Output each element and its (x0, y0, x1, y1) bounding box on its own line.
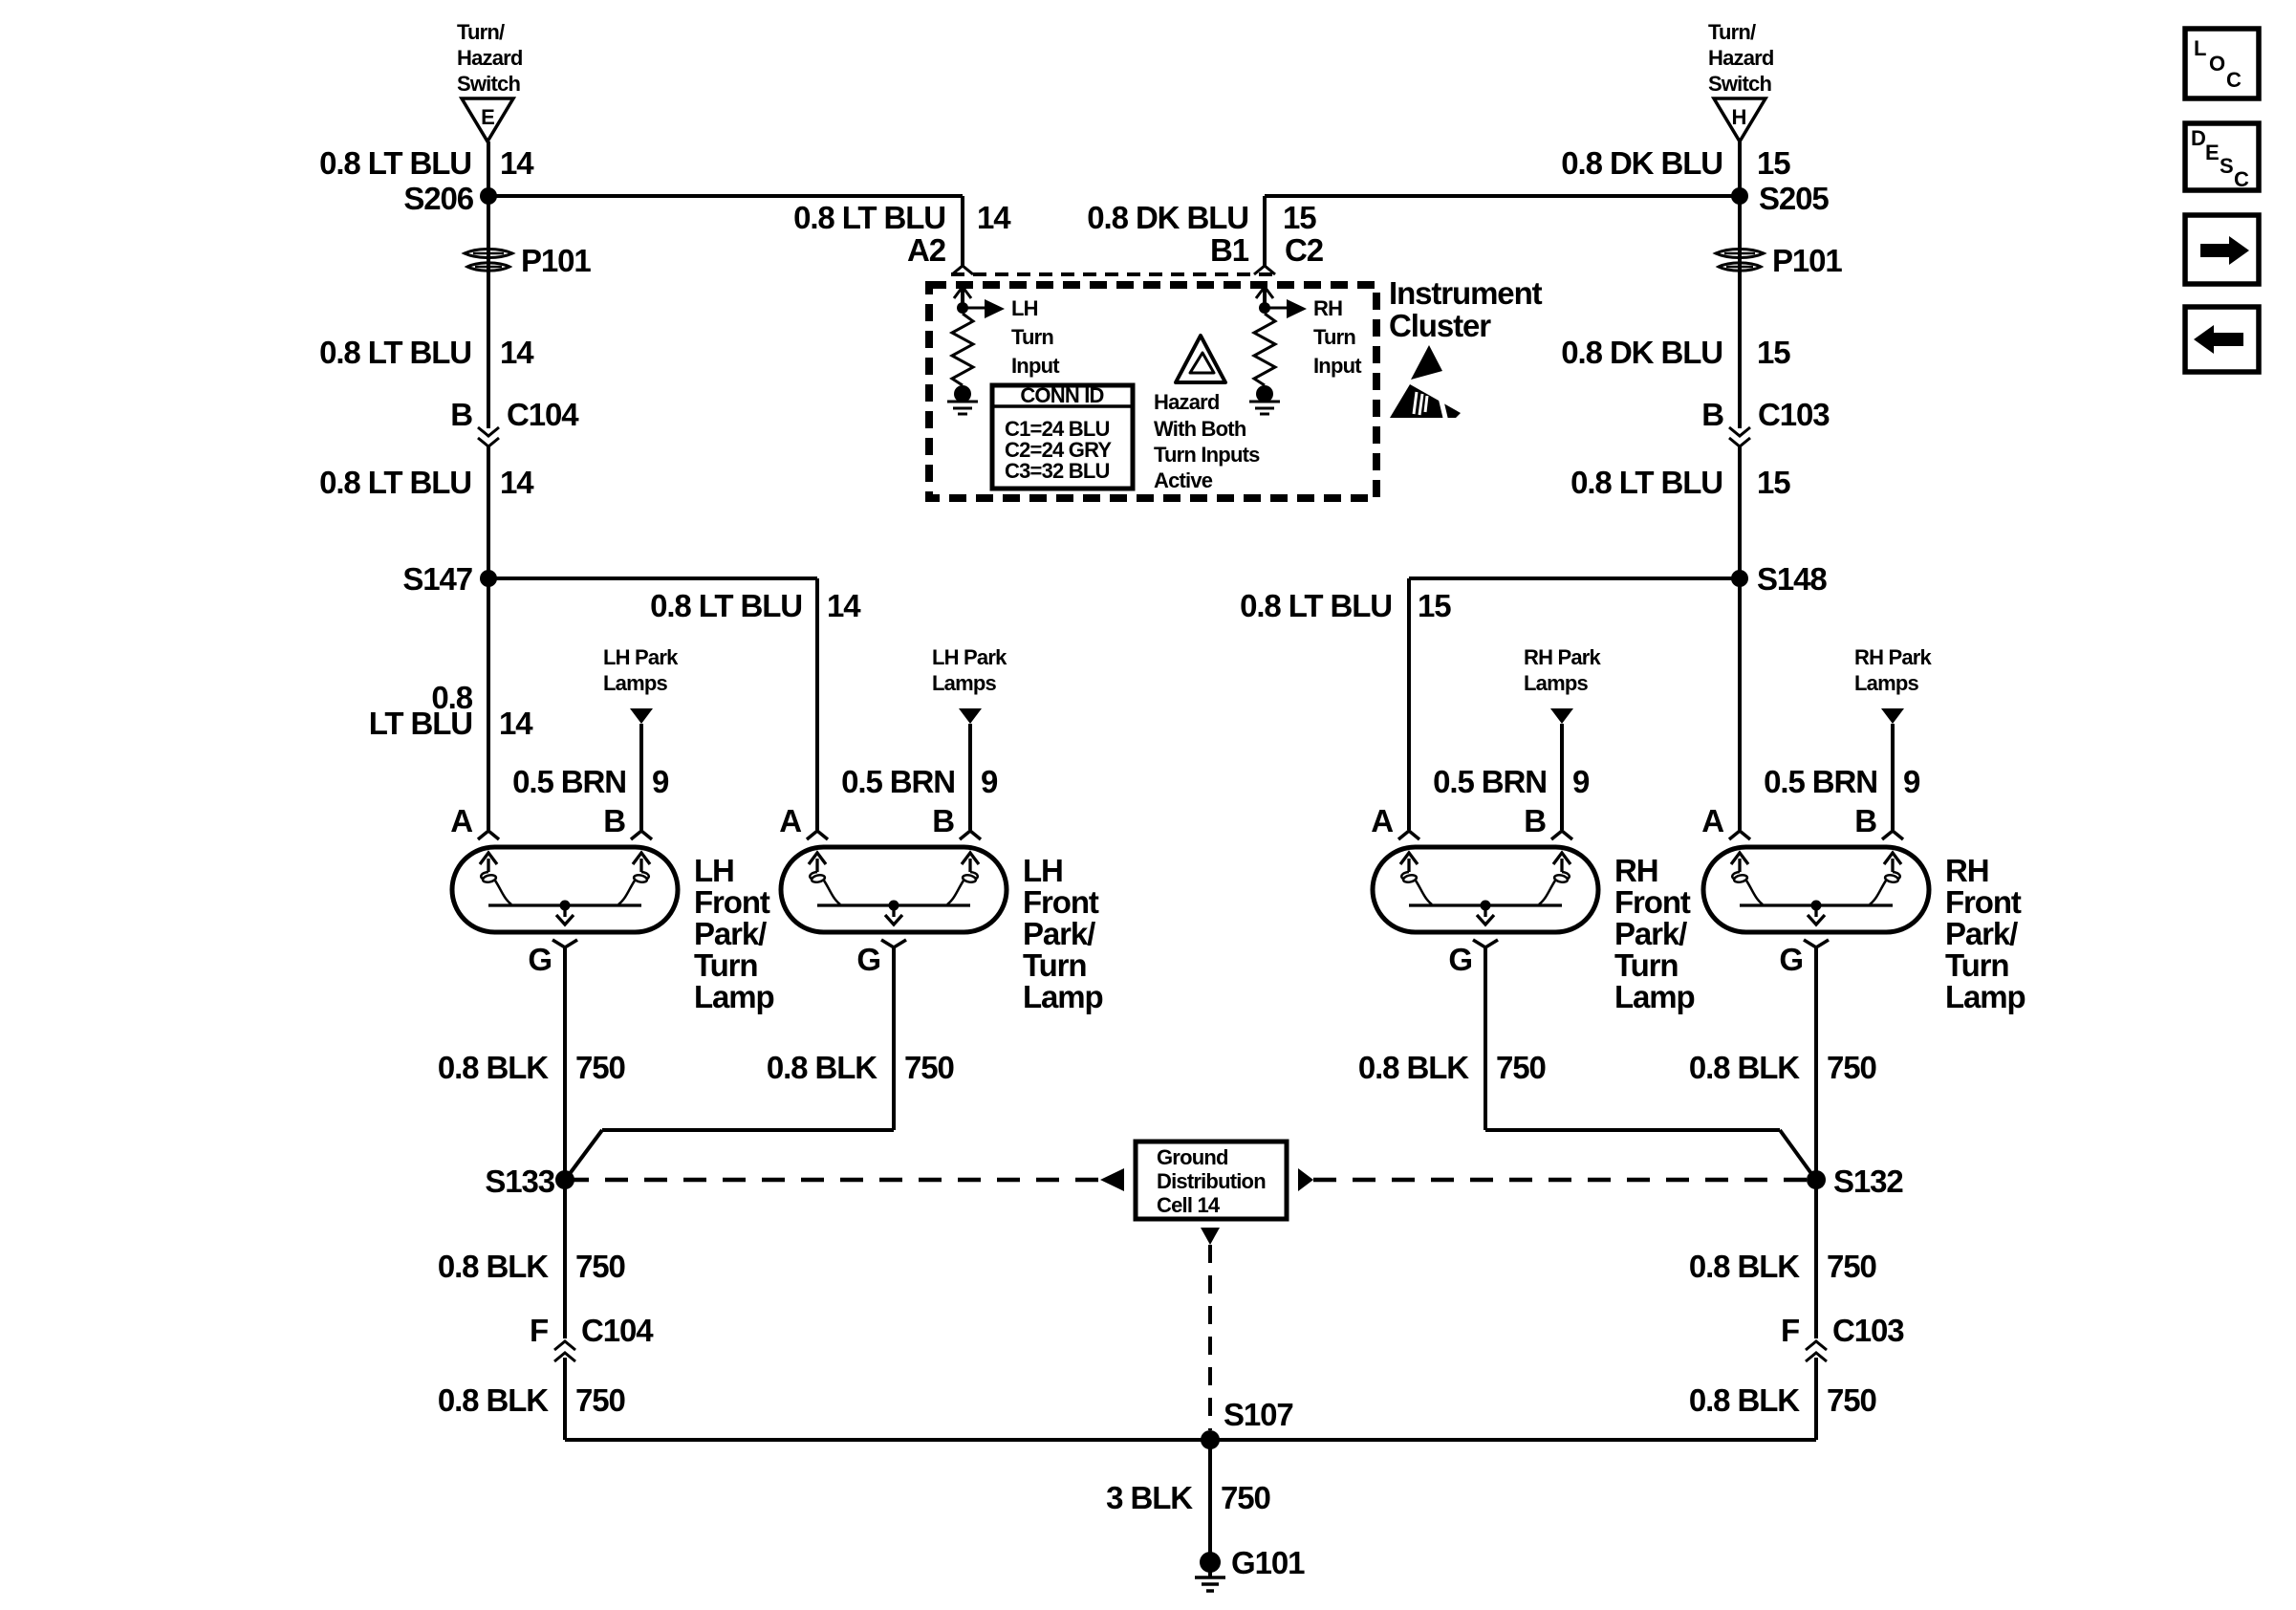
svg-text:0.8 LT BLU: 0.8 LT BLU (319, 145, 471, 181)
svg-text:Switch: Switch (457, 72, 520, 96)
svg-text:S107: S107 (1224, 1397, 1293, 1432)
svg-text:0.5 BRN: 0.5 BRN (841, 764, 955, 799)
svg-text:Park/: Park/ (694, 916, 767, 951)
svg-text:750: 750 (575, 1382, 625, 1418)
svg-text:750: 750 (1496, 1050, 1546, 1085)
svg-text:Hazard: Hazard (457, 46, 523, 70)
svg-text:15: 15 (1757, 465, 1790, 500)
svg-text:0.8 LT BLU: 0.8 LT BLU (793, 200, 945, 235)
svg-text:LH: LH (1023, 853, 1063, 888)
svg-text:0.8 BLK: 0.8 BLK (438, 1382, 549, 1418)
svg-text:750: 750 (1827, 1249, 1876, 1284)
svg-text:S133: S133 (485, 1164, 554, 1199)
svg-text:Distribution: Distribution (1157, 1169, 1266, 1193)
svg-text:Turn: Turn (1614, 947, 1678, 983)
svg-text:S206: S206 (403, 181, 473, 216)
svg-text:Turn: Turn (1945, 947, 2008, 983)
svg-text:Cluster: Cluster (1389, 308, 1491, 343)
svg-text:0.8 BLK: 0.8 BLK (1689, 1249, 1800, 1284)
svg-text:Park/: Park/ (1023, 916, 1095, 951)
svg-text:750: 750 (1827, 1050, 1876, 1085)
svg-text:D: D (2191, 126, 2205, 150)
svg-text:C2: C2 (1285, 232, 1324, 268)
svg-text:S: S (2220, 154, 2233, 178)
svg-text:Ground: Ground (1157, 1145, 1228, 1169)
svg-text:Cell 14: Cell 14 (1157, 1193, 1221, 1217)
svg-text:Turn: Turn (1023, 947, 1086, 983)
svg-text:G101: G101 (1231, 1545, 1305, 1580)
svg-text:14: 14 (500, 465, 534, 500)
svg-text:RH: RH (1313, 296, 1342, 320)
svg-text:Turn: Turn (1011, 325, 1053, 349)
svg-text:Front: Front (694, 884, 770, 920)
svg-text:0.8 LT BLU: 0.8 LT BLU (319, 465, 471, 500)
svg-text:Instrument: Instrument (1389, 275, 1543, 311)
svg-text:3 BLK: 3 BLK (1106, 1480, 1193, 1515)
svg-text:O: O (2209, 52, 2225, 76)
svg-text:LH: LH (1011, 296, 1038, 320)
svg-text:Lamps: Lamps (1524, 671, 1588, 695)
svg-text:15: 15 (1757, 145, 1790, 181)
svg-text:0.5 BRN: 0.5 BRN (512, 764, 626, 799)
svg-text:Turn Inputs: Turn Inputs (1154, 443, 1260, 467)
svg-text:0.8 BLK: 0.8 BLK (1358, 1050, 1469, 1085)
svg-text:RH: RH (1614, 853, 1657, 888)
svg-text:15: 15 (1757, 335, 1790, 370)
svg-text:B1: B1 (1210, 232, 1249, 268)
svg-text:750: 750 (904, 1050, 954, 1085)
svg-text:C103: C103 (1832, 1313, 1904, 1348)
svg-text:RH Park: RH Park (1524, 645, 1602, 669)
svg-text:14: 14 (977, 200, 1011, 235)
svg-text:C: C (2226, 68, 2242, 92)
svg-text:Hazard: Hazard (1154, 390, 1220, 414)
svg-text:RH Park: RH Park (1854, 645, 1933, 669)
svg-text:Lamps: Lamps (932, 671, 996, 695)
svg-text:Lamps: Lamps (603, 671, 667, 695)
svg-text:With Both: With Both (1154, 417, 1246, 441)
svg-text:Lamp: Lamp (694, 979, 774, 1014)
svg-text:Front: Front (1945, 884, 2022, 920)
svg-text:RH: RH (1945, 853, 1988, 888)
svg-text:C103: C103 (1758, 397, 1830, 432)
svg-text:750: 750 (575, 1249, 625, 1284)
svg-text:0.8 BLK: 0.8 BLK (767, 1050, 877, 1085)
svg-text:P101: P101 (521, 243, 591, 278)
svg-text:750: 750 (575, 1050, 625, 1085)
svg-text:L: L (2194, 36, 2206, 60)
svg-text:S205: S205 (1759, 181, 1829, 216)
svg-text:C104: C104 (581, 1313, 654, 1348)
svg-text:Lamp: Lamp (1023, 979, 1103, 1014)
svg-text:C104: C104 (507, 397, 579, 432)
svg-text:0.8 DK BLU: 0.8 DK BLU (1561, 145, 1722, 181)
svg-text:Turn: Turn (1313, 325, 1355, 349)
svg-text:Hazard: Hazard (1708, 46, 1774, 70)
svg-text:C: C (2234, 167, 2249, 191)
svg-text:Turn: Turn (694, 947, 757, 983)
svg-text:H: H (1731, 105, 1745, 129)
svg-text:Lamp: Lamp (1945, 979, 2025, 1014)
svg-text:0.5 BRN: 0.5 BRN (1764, 764, 1877, 799)
svg-text:0.8 BLK: 0.8 BLK (438, 1050, 549, 1085)
svg-text:F: F (1781, 1313, 1799, 1348)
svg-text:Switch: Switch (1708, 72, 1771, 96)
svg-text:Front: Front (1614, 884, 1691, 920)
svg-text:S132: S132 (1833, 1164, 1903, 1199)
svg-text:B: B (1701, 397, 1723, 432)
svg-text:0.8 LT BLU: 0.8 LT BLU (1570, 465, 1722, 500)
svg-text:750: 750 (1827, 1382, 1876, 1418)
svg-text:9: 9 (1903, 764, 1920, 799)
svg-text:0.8 LT BLU: 0.8 LT BLU (319, 335, 471, 370)
svg-text:0.8 BLK: 0.8 BLK (1689, 1382, 1800, 1418)
svg-text:C3=32 BLU: C3=32 BLU (1005, 459, 1110, 483)
svg-text:CONN ID: CONN ID (1020, 383, 1103, 407)
svg-text:LT BLU: LT BLU (369, 706, 472, 741)
svg-text:9: 9 (981, 764, 998, 799)
svg-text:Input: Input (1011, 354, 1060, 378)
svg-text:0.8 DK BLU: 0.8 DK BLU (1087, 200, 1248, 235)
svg-text:P101: P101 (1772, 243, 1842, 278)
svg-text:14: 14 (499, 706, 533, 741)
svg-text:0.8 LT BLU: 0.8 LT BLU (650, 588, 802, 623)
svg-text:9: 9 (1572, 764, 1590, 799)
svg-text:Park/: Park/ (1945, 916, 2018, 951)
svg-text:0.8 BLK: 0.8 BLK (438, 1249, 549, 1284)
svg-text:F: F (530, 1313, 548, 1348)
svg-text:14: 14 (500, 145, 534, 181)
svg-text:0.8 BLK: 0.8 BLK (1689, 1050, 1800, 1085)
svg-text:0.8 LT BLU: 0.8 LT BLU (1240, 588, 1392, 623)
svg-text:S148: S148 (1757, 561, 1827, 597)
svg-text:Active: Active (1154, 468, 1213, 492)
svg-text:Lamp: Lamp (1614, 979, 1695, 1014)
svg-text:Turn/: Turn/ (457, 20, 505, 44)
svg-text:LH: LH (694, 853, 734, 888)
svg-text:A2: A2 (907, 232, 946, 268)
svg-text:Front: Front (1023, 884, 1099, 920)
svg-text:B: B (450, 397, 472, 432)
svg-text:15: 15 (1418, 588, 1451, 623)
svg-text:0.5 BRN: 0.5 BRN (1433, 764, 1547, 799)
svg-text:S147: S147 (402, 561, 472, 597)
svg-text:14: 14 (500, 335, 534, 370)
svg-text:Turn/: Turn/ (1708, 20, 1756, 44)
svg-text:LH Park: LH Park (603, 645, 679, 669)
svg-text:LH Park: LH Park (932, 645, 1007, 669)
svg-text:0.8 DK BLU: 0.8 DK BLU (1561, 335, 1722, 370)
svg-text:15: 15 (1283, 200, 1316, 235)
svg-text:E: E (481, 105, 494, 129)
svg-text:9: 9 (652, 764, 669, 799)
svg-text:750: 750 (1221, 1480, 1270, 1515)
svg-text:Park/: Park/ (1614, 916, 1687, 951)
svg-text:E: E (2205, 141, 2219, 164)
svg-text:Lamps: Lamps (1854, 671, 1918, 695)
svg-text:14: 14 (827, 588, 861, 623)
svg-text:Input: Input (1313, 354, 1362, 378)
